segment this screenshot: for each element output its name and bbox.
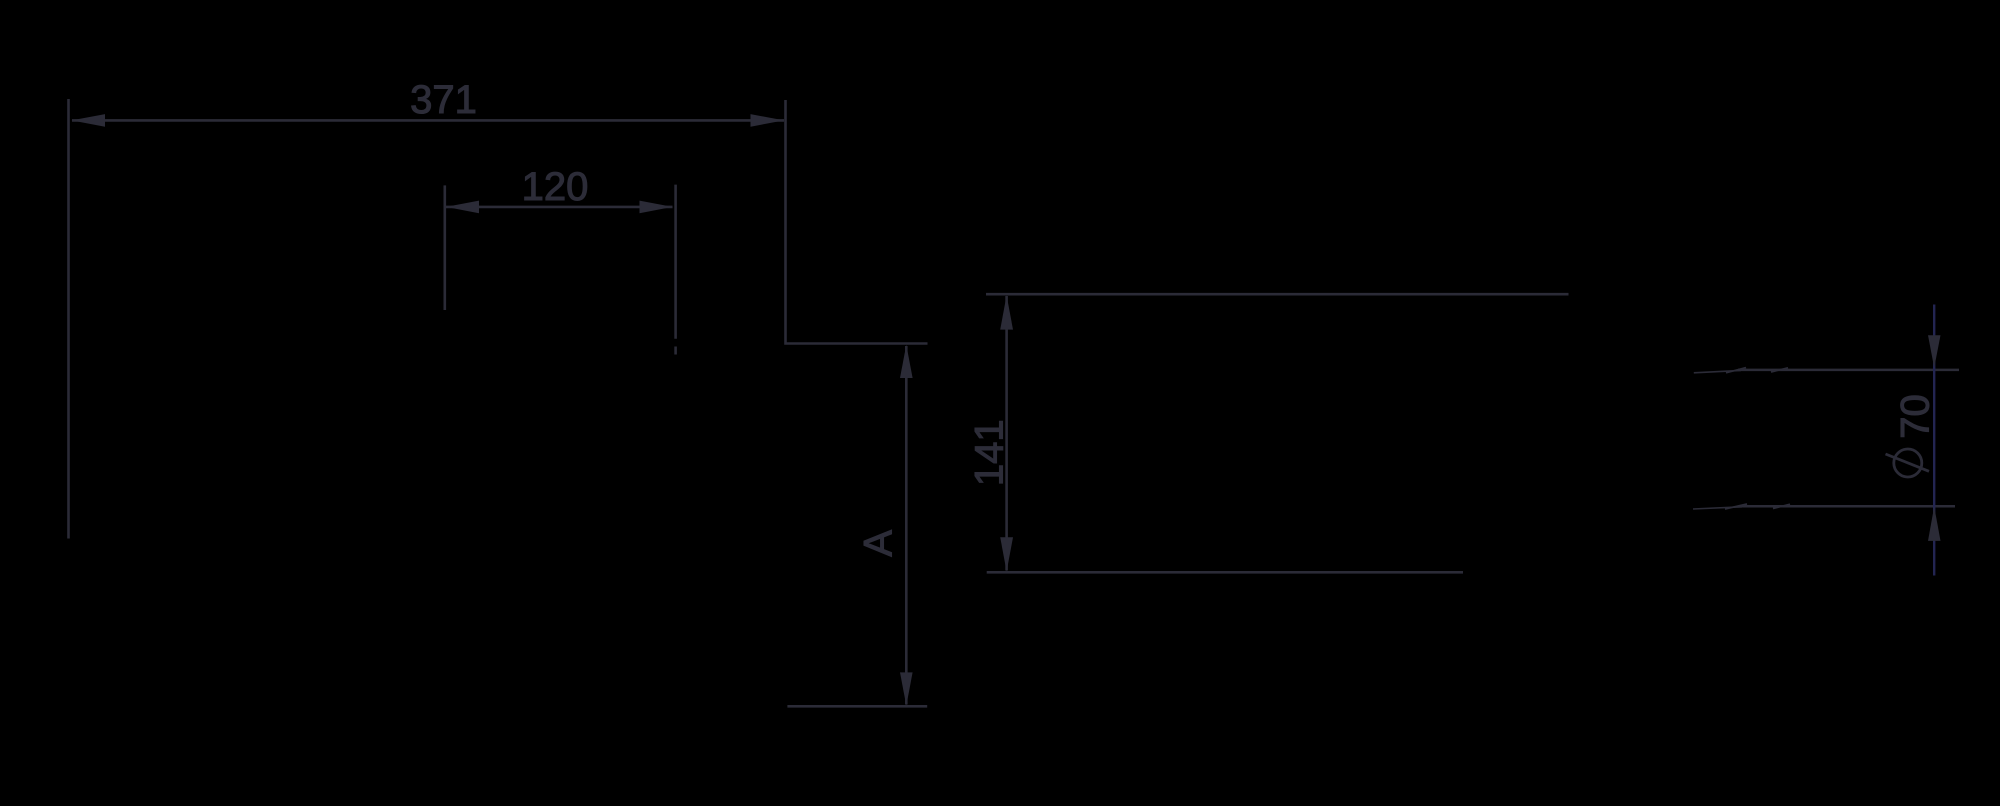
svg-text:70: 70 bbox=[1894, 394, 1938, 439]
svg-text:120: 120 bbox=[522, 165, 589, 209]
svg-text:371: 371 bbox=[410, 78, 477, 122]
svg-text:A: A bbox=[856, 530, 900, 557]
svg-text:141: 141 bbox=[968, 419, 1012, 486]
